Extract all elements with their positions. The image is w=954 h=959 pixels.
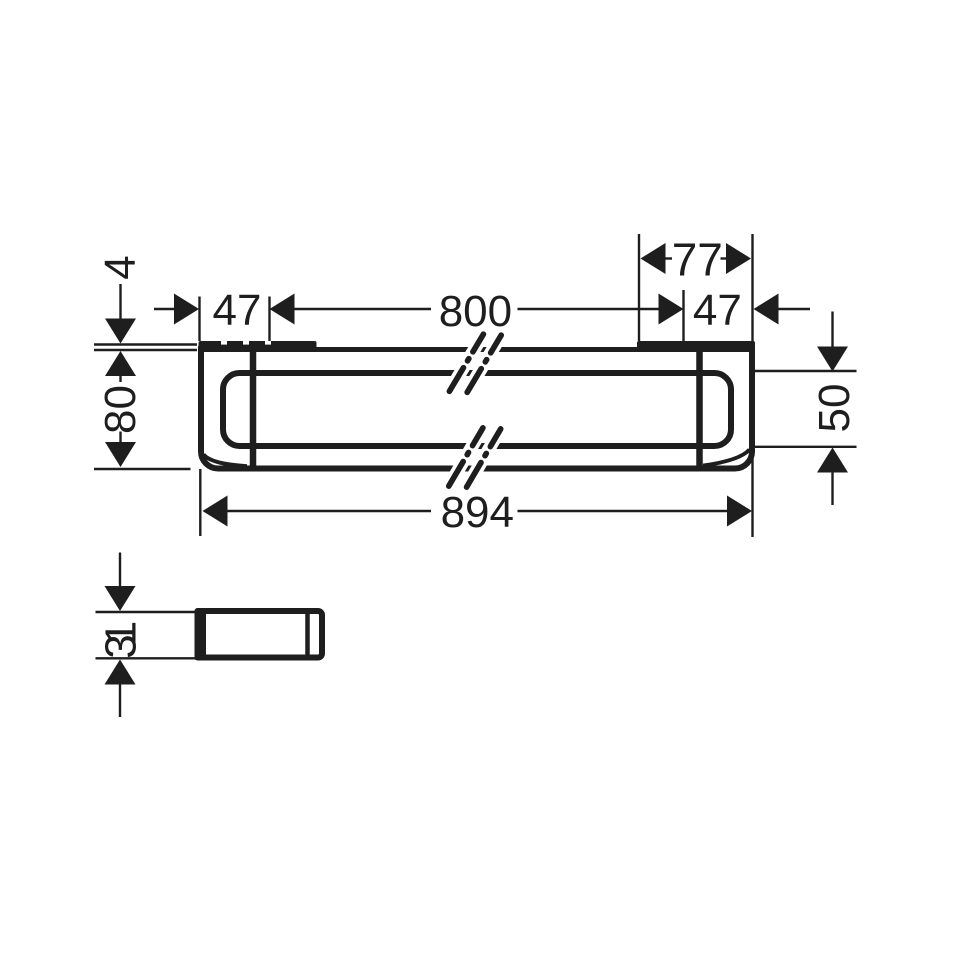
dim 77: left extension line xyxy=(638,234,640,341)
svg-text:31: 31 xyxy=(96,621,145,659)
upper break mark: white halos xyxy=(449,334,501,392)
dim 4: arrow down xyxy=(105,319,136,344)
dim 31: extension line top xyxy=(96,611,197,613)
dim 31: arrow up xyxy=(105,660,136,685)
dim 47 left: extension line at bracket centre xyxy=(268,297,270,342)
dim 894: dimension line left segment xyxy=(228,510,432,512)
dim 80: leader line above bottom arrow xyxy=(119,432,121,443)
upper break mark: slashes xyxy=(449,334,501,392)
towel bar front view: inner slot rounded rectangle xyxy=(223,373,731,446)
dim 77/47/894 shared right extension line xyxy=(751,234,753,537)
dim 47 left: arrow right xyxy=(174,294,199,325)
dim 894: arrow left xyxy=(203,496,228,527)
dim 4: extension line lower xyxy=(94,349,197,351)
dim 800/47 shared extension line xyxy=(682,290,684,341)
right mounting plate (top band) xyxy=(637,341,755,352)
dim 77: line stub right xyxy=(721,257,727,259)
dim 47 left: tail line xyxy=(154,308,174,310)
dimension labels xyxy=(96,234,859,659)
svg-text:47: 47 xyxy=(213,286,262,335)
lower break mark: slashes xyxy=(449,428,501,487)
svg-text:80: 80 xyxy=(96,385,145,434)
dim 4/80: shared arrow up xyxy=(105,351,136,376)
right wall-mount bracket vertical xyxy=(696,348,703,467)
dim 80: arrow down xyxy=(105,442,136,467)
left mounting plate (top band) xyxy=(199,341,317,352)
dim 77: arrow left xyxy=(641,243,666,274)
dim 50: leader line bottom xyxy=(831,473,833,506)
dim 4: extension line upper xyxy=(94,343,197,345)
dim 800: dimension line left segment xyxy=(295,308,432,310)
dim 50: extension line top xyxy=(755,370,857,372)
arrowheads xyxy=(105,243,849,685)
side view: outer outline xyxy=(198,611,323,658)
towel bar front view: outer outline xyxy=(201,346,752,469)
dim 77: arrow right xyxy=(726,243,751,274)
svg-text:4: 4 xyxy=(96,255,145,279)
bottom-left corner inner contour arc xyxy=(204,455,248,467)
dim 47 right: tail line xyxy=(779,308,811,310)
dim 31: leader line bottom xyxy=(119,685,121,718)
svg-text:894: 894 xyxy=(441,488,514,537)
lower break mark: white halos xyxy=(449,428,501,487)
svg-text:800: 800 xyxy=(439,287,512,336)
dim 800: arrow right / dim 47 shared xyxy=(659,294,684,325)
left plate top notches xyxy=(221,341,271,345)
dim 80: extension line bottom xyxy=(94,468,191,470)
dim 50: arrow up xyxy=(817,448,848,473)
dim 800: arrow left / dim 47 shared xyxy=(270,294,295,325)
dim 31: extension line bottom xyxy=(96,657,197,659)
dim 77: line stub left xyxy=(666,257,673,259)
side view: wall plate block (left thick end) xyxy=(195,608,207,661)
side view: inner vertical line near right end xyxy=(305,611,310,658)
left wall-mount bracket vertical xyxy=(250,348,257,467)
dim 50: leader line top xyxy=(831,312,833,348)
dim 50: arrow down xyxy=(817,347,848,372)
svg-text:77: 77 xyxy=(672,234,723,286)
dim 800: dimension line right segment xyxy=(518,308,659,310)
svg-text:50: 50 xyxy=(810,384,859,433)
dim 47 left: extension line at bar end xyxy=(198,297,200,342)
dim 894: left extension line xyxy=(199,469,201,536)
dim 894: arrow right xyxy=(727,496,752,527)
dim 50: extension line bottom xyxy=(755,446,857,448)
svg-text:47: 47 xyxy=(693,286,742,335)
dim 894: dimension line right segment xyxy=(518,510,728,512)
dim 31: leader line top xyxy=(119,553,121,587)
dim 47 right: arrow left xyxy=(754,294,779,325)
bottom-right corner inner contour arc xyxy=(703,450,750,466)
dim 4: leader line above xyxy=(119,284,121,320)
towel bar front view: top edge line xyxy=(198,347,755,352)
dim 31: arrow down xyxy=(105,586,136,611)
dim 80: leader stub below shared arrow xyxy=(119,376,121,382)
